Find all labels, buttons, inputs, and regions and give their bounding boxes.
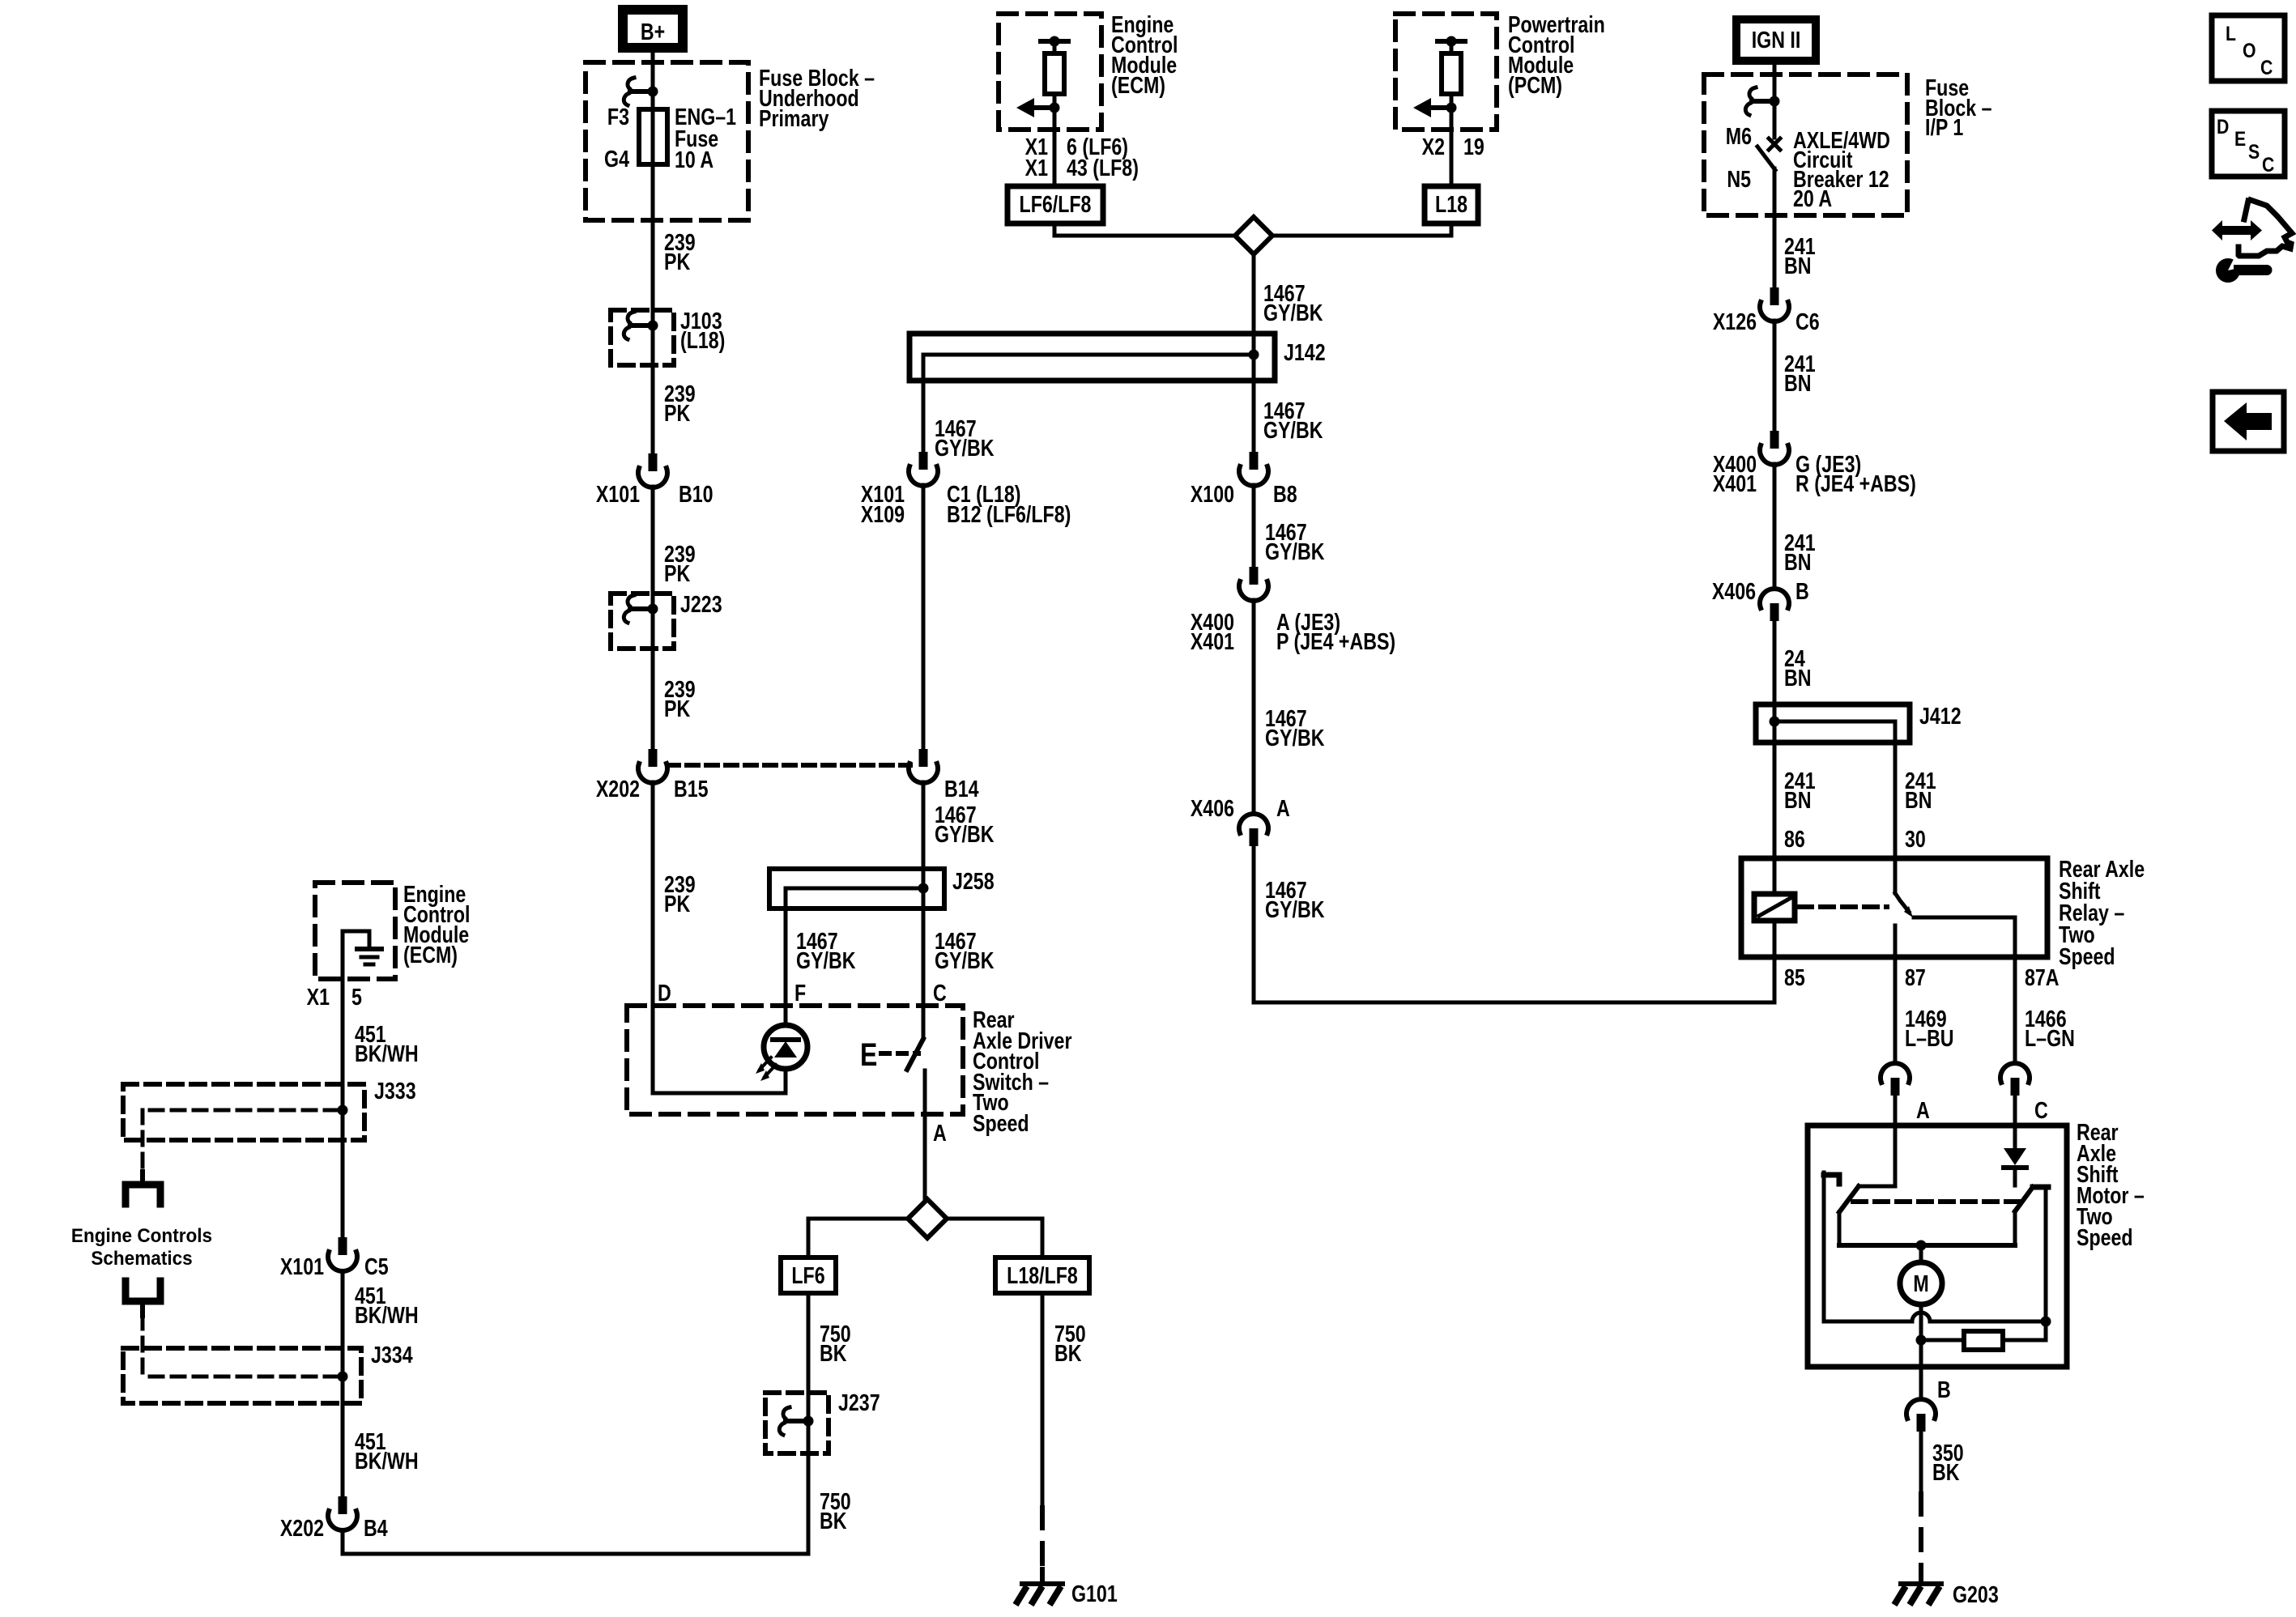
svg-text:C: C xyxy=(2262,153,2275,176)
connector X400/X401 pin A/P xyxy=(1250,567,1259,585)
motor bottom junction dot xyxy=(2041,1317,2051,1327)
wire bar to motor xyxy=(1919,1245,1923,1262)
module internal top bar xyxy=(1041,39,1068,44)
diamond splice below switch xyxy=(908,1199,947,1238)
wire L18 to diamond xyxy=(1272,223,1451,236)
J334 internal dashed wire xyxy=(143,1375,338,1379)
wire J412 to relay coil pin 86, 241 BN xyxy=(1773,704,1777,894)
svg-text:PK: PK xyxy=(664,890,690,917)
J142 internal wire to C1 branch xyxy=(923,355,1254,381)
icon box back arrow xyxy=(2213,392,2284,451)
module internal arrow xyxy=(1432,105,1451,110)
indicator LED circle xyxy=(764,1025,807,1069)
motor bottom rail with hop xyxy=(1824,1313,2046,1321)
wire X400 to X406 A, 1467 GY/BK xyxy=(1252,600,1256,814)
svg-text:L18: L18 xyxy=(1435,190,1467,217)
splice J103 dashed box xyxy=(611,310,674,365)
connector motor pin A xyxy=(1881,1063,1910,1083)
svg-text:E: E xyxy=(860,1036,877,1073)
svg-text:X202: X202 xyxy=(596,775,640,802)
svg-text:X101: X101 xyxy=(596,480,640,507)
svg-text:Speed: Speed xyxy=(2059,943,2115,969)
svg-text:20 A: 20 A xyxy=(1793,185,1832,211)
svg-text:PK: PK xyxy=(664,695,690,721)
rear axle shift relay box xyxy=(1741,858,2047,957)
LED diode triangle xyxy=(774,1041,797,1057)
svg-text:Speed: Speed xyxy=(2077,1223,2133,1250)
svg-text:A: A xyxy=(933,1119,947,1146)
power symbol B+ xyxy=(623,10,683,48)
wire C1 to B14, 1467 GY/BK xyxy=(922,485,926,749)
wire B10 to J223, 239 PK xyxy=(651,487,655,749)
svg-text:J412: J412 xyxy=(1919,702,1962,729)
svg-text:GY/BK: GY/BK xyxy=(1263,299,1323,326)
connector X202 pin B14 xyxy=(919,749,928,767)
svg-text:X1: X1 xyxy=(307,983,330,1010)
motor switch left blade xyxy=(1839,1186,1859,1212)
relay contact 87A wire xyxy=(1914,917,2015,957)
dashed lead to off-page bracket xyxy=(141,1110,145,1173)
svg-text:GY/BK: GY/BK xyxy=(1265,538,1324,564)
svg-text:N5: N5 xyxy=(1727,165,1751,192)
ECM internal ground wire xyxy=(343,931,369,979)
wire J258 through to switch pin C xyxy=(922,869,926,1039)
relay armature blade xyxy=(1895,893,1909,912)
svg-text:GY/BK: GY/BK xyxy=(1263,416,1323,443)
circuit breaker contact X xyxy=(1769,138,1780,150)
connector X101 pin B10 xyxy=(649,453,658,471)
svg-text:X2: X2 xyxy=(1422,133,1445,160)
diamond splice top xyxy=(1235,217,1272,254)
svg-text:BN: BN xyxy=(1784,548,1812,575)
svg-text:P (JE4 +ABS): P (JE4 +ABS) xyxy=(1276,628,1395,654)
J333 internal dashed wire xyxy=(143,1108,338,1113)
wire LF6/LF8 to diamond xyxy=(1054,223,1235,236)
svg-text:C: C xyxy=(933,979,947,1006)
svg-text:10 A: 10 A xyxy=(675,146,714,172)
svg-text:O: O xyxy=(2243,39,2256,62)
svg-text:85: 85 xyxy=(1784,964,1805,990)
svg-text:(ECM): (ECM) xyxy=(1111,71,1165,98)
svg-text:Engine Controls: Engine Controls xyxy=(71,1224,212,1246)
wire X126 to X400, 241 BN xyxy=(1773,321,1777,431)
wire C5 to X202 B4 xyxy=(341,1271,345,1496)
wire ECM to X101 C5, 451 BK/WH xyxy=(341,979,345,1237)
svg-text:M: M xyxy=(1913,1270,1928,1296)
wire through J142 xyxy=(1252,334,1256,381)
svg-text:87A: 87A xyxy=(2025,964,2060,990)
connector X101 pin C5 xyxy=(339,1237,347,1255)
diode on C branch xyxy=(2013,1126,2017,1148)
svg-text:30: 30 xyxy=(1905,825,1926,852)
engine control module (ECM) top dashed box xyxy=(999,14,1101,130)
svg-text:BN: BN xyxy=(1784,664,1812,691)
wire B14 to J258, 1467 GY/BK xyxy=(922,782,926,869)
splice block J412 xyxy=(1756,704,1910,743)
fuse F3 ENG-1 xyxy=(639,109,667,164)
connector X126 pin C6 xyxy=(1770,287,1779,305)
svg-text:Speed: Speed xyxy=(973,1109,1029,1136)
svg-text:X406: X406 xyxy=(1712,577,1756,604)
connector X406 pin A xyxy=(1239,814,1268,833)
splice J237 dashed box xyxy=(765,1393,829,1453)
fuse block terminal clip xyxy=(624,78,634,105)
splice J223 dashed box xyxy=(611,594,674,649)
motor left rail outer xyxy=(1822,1172,1826,1321)
motor switch dashed link xyxy=(1853,1199,2018,1204)
svg-text:J142: J142 xyxy=(1284,338,1326,365)
svg-text:J333: J333 xyxy=(374,1077,416,1104)
icon vehicle with wrench xyxy=(2238,200,2292,256)
svg-text:GY/BK: GY/BK xyxy=(1265,896,1324,922)
svg-text:LF6/LF8: LF6/LF8 xyxy=(1020,190,1092,217)
wire switch to diamond junction A xyxy=(923,1070,927,1199)
connector X101/X109 pin C1/B12 xyxy=(919,452,928,470)
fuse block underhood dashed box xyxy=(586,62,748,220)
wire diamond to LF6 xyxy=(808,1219,908,1257)
svg-text:J237: J237 xyxy=(838,1389,880,1415)
wire J142 to X100 B8 xyxy=(1252,381,1256,452)
svg-text:GY/BK: GY/BK xyxy=(796,947,855,973)
module internal wire down xyxy=(1450,108,1454,130)
svg-text:B4: B4 xyxy=(364,1514,388,1541)
wire diamond to J142 xyxy=(1252,254,1256,334)
motor common bar xyxy=(1839,1243,2015,1248)
svg-text:L–BU: L–BU xyxy=(1905,1024,1954,1051)
svg-text:BN: BN xyxy=(1784,786,1812,813)
wire X406 A to relay pin 85, 1467 GY/BK xyxy=(1254,846,1774,1002)
svg-text:L: L xyxy=(2226,22,2236,45)
wire J258 to LED pin F, 1467 GY/BK xyxy=(784,908,788,1025)
wire B8 to X400, 1467 GY/BK xyxy=(1252,485,1256,567)
svg-text:X100: X100 xyxy=(1191,480,1234,507)
ground G101 xyxy=(1022,1581,1063,1586)
svg-text:B10: B10 xyxy=(679,480,714,507)
svg-text:PK: PK xyxy=(664,248,690,274)
switch E dashed link xyxy=(881,1051,918,1056)
svg-text:S: S xyxy=(2248,140,2260,163)
splice J223 symbol xyxy=(624,595,634,623)
svg-text:B15: B15 xyxy=(674,775,709,802)
svg-text:X101: X101 xyxy=(280,1253,324,1279)
wire J142 to C1 connector xyxy=(922,381,926,452)
motor resistor junction dot xyxy=(1916,1335,1927,1346)
relay coil xyxy=(1754,894,1795,921)
ground G203 xyxy=(1901,1581,1941,1586)
svg-text:BN: BN xyxy=(1784,252,1812,279)
switch blade C-A xyxy=(907,1039,923,1070)
svg-text:BK/WH: BK/WH xyxy=(355,1301,419,1328)
off-page bracket upper xyxy=(126,1185,160,1204)
module internal resistor xyxy=(1450,47,1454,53)
connector X202 pin B4 xyxy=(339,1496,347,1514)
svg-text:R (JE4 +ABS): R (JE4 +ABS) xyxy=(1795,470,1916,496)
relay coil dashed link xyxy=(1799,904,1887,909)
svg-text:B12 (LF6/LF8): B12 (LF6/LF8) xyxy=(947,500,1071,527)
svg-text:I/P 1: I/P 1 xyxy=(1925,113,1963,140)
svg-text:E: E xyxy=(2234,127,2246,150)
module internal junction dot xyxy=(1050,36,1060,47)
svg-text:X109: X109 xyxy=(861,500,905,527)
svg-text:BN: BN xyxy=(1905,786,1932,813)
connector X202 pin B15 xyxy=(649,749,658,767)
module internal top bar xyxy=(1438,39,1465,44)
wire 87 to connector A, 1469 L-BU xyxy=(1893,957,1898,1063)
wire C into motor box xyxy=(2013,1096,2017,1126)
connector X406 pin B xyxy=(1760,589,1789,608)
J258 junction dot xyxy=(918,883,929,894)
svg-text:(PCM): (PCM) xyxy=(1508,71,1562,98)
fuse block I/P dashed box xyxy=(1704,74,1907,215)
svg-text:GY/BK: GY/BK xyxy=(1265,724,1324,751)
option box LF6/LF8 xyxy=(1007,186,1103,223)
wire breaker to X126 xyxy=(1773,168,1777,287)
svg-text:86: 86 xyxy=(1784,825,1805,852)
rear axle shift motor box xyxy=(1808,1126,2067,1367)
motor switch A wire xyxy=(1859,1126,1895,1186)
svg-text:Primary: Primary xyxy=(759,104,829,131)
dashed wire to G101 xyxy=(1040,1508,1045,1571)
off-page bracket lower xyxy=(126,1281,160,1301)
J334 junction dot xyxy=(338,1372,348,1382)
svg-text:B8: B8 xyxy=(1273,480,1297,507)
svg-text:B+: B+ xyxy=(641,18,665,45)
svg-text:G203: G203 xyxy=(1953,1581,1999,1607)
wire 87A to connector C, 1466 L-GN xyxy=(2013,957,2017,1063)
svg-text:X202: X202 xyxy=(280,1514,324,1541)
svg-text:G101: G101 xyxy=(1071,1580,1118,1606)
option box L18/LF8 xyxy=(995,1257,1089,1293)
svg-text:D: D xyxy=(658,979,671,1006)
dashed lead bracket to J334 xyxy=(140,1301,145,1316)
motor left hook contact xyxy=(1824,1175,1839,1184)
J333 junction dot xyxy=(338,1105,348,1116)
motor switch right blade xyxy=(2015,1187,2033,1211)
svg-text:PK: PK xyxy=(664,399,690,426)
wire LED bottom to pin D leg xyxy=(653,1069,786,1093)
svg-text:19: 19 xyxy=(1463,133,1485,160)
svg-text:J258: J258 xyxy=(952,867,995,894)
module internal junction dot xyxy=(1446,36,1457,47)
svg-text:L18/LF8: L18/LF8 xyxy=(1007,1262,1078,1288)
power symbol IGN II xyxy=(1736,19,1816,61)
svg-text:G4: G4 xyxy=(604,145,629,172)
module internal wire down xyxy=(1053,108,1057,130)
svg-text:GY/BK: GY/BK xyxy=(935,434,994,461)
connector motor pin C xyxy=(2000,1063,2030,1083)
wire B+ to fuse block xyxy=(651,53,655,109)
svg-text:B: B xyxy=(1937,1376,1951,1402)
svg-text:GY/BK: GY/BK xyxy=(935,947,994,973)
J412 junction dot xyxy=(1770,717,1780,727)
J258 internal wire to F branch xyxy=(786,888,923,908)
wire J412 to relay pin 30, 241 BN xyxy=(1893,743,1898,893)
motor switch left rail xyxy=(1838,1212,1842,1245)
icon box DESC xyxy=(2212,111,2285,177)
svg-text:X401: X401 xyxy=(1191,628,1234,654)
svg-text:F: F xyxy=(794,979,806,1006)
wire fuse to J103, 239 PK xyxy=(651,164,655,453)
svg-text:43 (LF8): 43 (LF8) xyxy=(1067,154,1139,181)
wire X406 B to J412, 24 BN xyxy=(1773,621,1777,704)
svg-text:C: C xyxy=(2034,1096,2048,1123)
motor right hook contact xyxy=(2033,1185,2048,1190)
wire bottom run to X202 B4 xyxy=(343,1530,808,1554)
module internal resistor xyxy=(1053,47,1057,53)
svg-text:C6: C6 xyxy=(1795,308,1820,334)
LED cathode bar xyxy=(773,1037,799,1042)
svg-text:87: 87 xyxy=(1905,964,1926,990)
motor right rail outer xyxy=(2044,1189,2048,1321)
svg-text:BK: BK xyxy=(820,1339,847,1366)
J412 internal wire to pin 30 xyxy=(1774,721,1895,743)
svg-text:X126: X126 xyxy=(1713,308,1757,334)
svg-text:BK: BK xyxy=(1054,1339,1082,1366)
wire B to G203, 350 BK xyxy=(1919,1432,1923,1494)
option box L18 xyxy=(1425,186,1478,223)
fuse block terminal clip (I/P) xyxy=(1745,87,1756,115)
svg-text:LF6: LF6 xyxy=(791,1262,824,1288)
svg-text:BN: BN xyxy=(1784,369,1812,396)
wire IGN II to fuse block xyxy=(1773,65,1777,138)
svg-text:GY/BK: GY/BK xyxy=(935,820,994,847)
powertrain control module (PCM) dashed box xyxy=(1395,14,1497,130)
wire motor to B pin xyxy=(1919,1304,1923,1367)
rear axle driver control switch dashed box xyxy=(627,1006,963,1114)
svg-text:IGN II: IGN II xyxy=(1752,26,1801,53)
wire PCM to L18 box xyxy=(1450,130,1454,186)
splice J103 symbol xyxy=(624,312,634,339)
splice J333 dashed box xyxy=(123,1084,364,1140)
J142 junction dot xyxy=(1249,350,1259,360)
wire A into motor box xyxy=(1893,1096,1898,1126)
splice block J142 xyxy=(909,334,1275,381)
svg-text:X1: X1 xyxy=(1025,154,1048,181)
svg-text:L–GN: L–GN xyxy=(2025,1024,2075,1051)
module internal arrow xyxy=(1035,105,1054,110)
svg-text:BK/WH: BK/WH xyxy=(355,1040,419,1066)
svg-text:BK/WH: BK/WH xyxy=(355,1447,419,1474)
svg-text:M6: M6 xyxy=(1726,122,1752,149)
wire X400 to X406 B, 241 BN xyxy=(1773,464,1777,589)
icon box LOC xyxy=(2212,15,2285,81)
svg-text:J334: J334 xyxy=(371,1341,413,1368)
wire L18/LF8 to G101, 750 BK xyxy=(1041,1293,1045,1508)
svg-text:X406: X406 xyxy=(1191,794,1234,821)
option box LF6 xyxy=(781,1257,836,1293)
chassis ground symbol in ECM xyxy=(357,947,381,951)
svg-text:D: D xyxy=(2217,115,2229,138)
svg-text:X401: X401 xyxy=(1713,470,1757,496)
wire relay 85 below box xyxy=(1773,921,1777,957)
svg-text:PK: PK xyxy=(664,560,690,586)
connector motor pin B xyxy=(1919,1367,1923,1399)
svg-text:C5: C5 xyxy=(364,1253,389,1279)
splice J334 dashed box xyxy=(123,1348,361,1403)
connector X400/X401 pin G/R xyxy=(1770,431,1779,449)
motor switch right rail xyxy=(2013,1211,2017,1245)
wire ECM to LF6/LF8 box xyxy=(1053,130,1057,186)
motor M circle xyxy=(1900,1262,1942,1304)
svg-text:C: C xyxy=(2260,56,2273,79)
svg-text:5: 5 xyxy=(351,983,362,1010)
svg-text:B14: B14 xyxy=(944,775,979,802)
svg-text:J223: J223 xyxy=(680,590,722,617)
connector X100 pin B8 xyxy=(1250,452,1259,470)
svg-text:Schematics: Schematics xyxy=(91,1247,192,1269)
splice block J258 xyxy=(769,869,944,908)
svg-text:BK: BK xyxy=(1932,1458,1960,1485)
svg-text:A: A xyxy=(1276,794,1290,821)
relay pin 87 stub xyxy=(1893,926,1898,957)
svg-text:F3: F3 xyxy=(607,103,629,130)
wire B15 to switch pin D, 239 PK xyxy=(651,782,655,1093)
motor bar junction dot xyxy=(1916,1240,1927,1251)
LED light arrows xyxy=(760,1057,776,1077)
svg-text:BK: BK xyxy=(820,1507,847,1534)
dashed connector link X202 B15-B14 xyxy=(667,763,910,768)
dashed wire to G203 xyxy=(1919,1494,1923,1569)
splice J237 symbol xyxy=(779,1407,790,1435)
wire diamond to L18/LF8 xyxy=(947,1219,1042,1257)
icon double arrow xyxy=(2212,220,2262,240)
svg-text:(ECM): (ECM) xyxy=(403,941,458,968)
svg-text:A: A xyxy=(1916,1096,1930,1123)
engine control module (ECM) ground dashed box xyxy=(315,883,395,979)
svg-text:(L18): (L18) xyxy=(680,326,725,353)
svg-text:B: B xyxy=(1795,577,1809,604)
motor resistor branch xyxy=(1921,1338,1964,1343)
wire LF6 to J237, 750 BK xyxy=(807,1293,811,1554)
icon wrench xyxy=(2216,258,2240,283)
circuit breaker blade xyxy=(1757,147,1775,170)
